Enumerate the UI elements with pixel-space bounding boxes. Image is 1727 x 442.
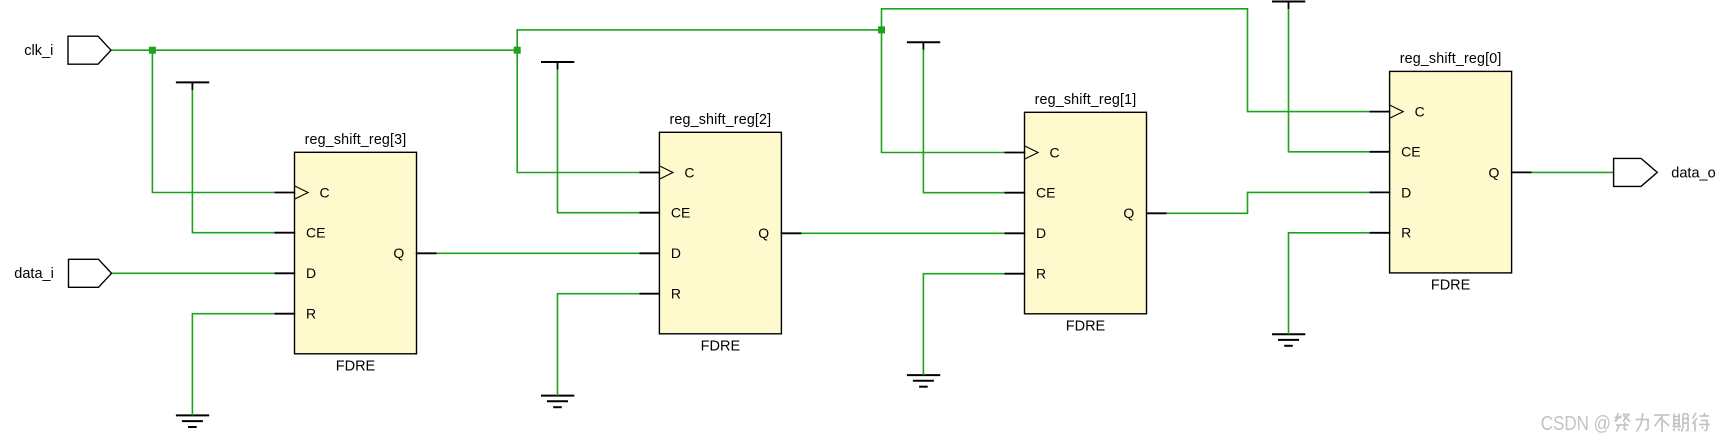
svg-text:reg_shift_reg[0]: reg_shift_reg[0] — [1400, 51, 1502, 67]
svg-text:clk_i: clk_i — [24, 43, 53, 59]
svg-text:C: C — [320, 184, 330, 200]
svg-text:D: D — [671, 245, 681, 261]
svg-text:data_i: data_i — [14, 266, 54, 282]
flip-flop reg_shift_reg[2] (FDRE cell U2) — [639, 132, 801, 333]
wire GND to R of reg_shift_reg[2] — [558, 294, 640, 396]
svg-text:D: D — [1401, 184, 1411, 200]
wire VCC to CE of reg_shift_reg[0] — [1289, 9, 1370, 152]
svg-text:FDRE: FDRE — [1066, 319, 1106, 335]
svg-text:data_o: data_o — [1671, 165, 1715, 181]
svg-text:Q: Q — [758, 225, 769, 241]
wire clk junction1 to junction2 — [152, 49, 517, 51]
svg-text:D: D — [1036, 225, 1046, 241]
wire VCC to CE of reg_shift_reg[1] — [923, 50, 1004, 193]
flip-flop reg_shift_reg[0] (FDRE cell U4) — [1370, 71, 1532, 273]
svg-text:reg_shift_reg[2]: reg_shift_reg[2] — [670, 112, 772, 128]
svg-text:Q: Q — [393, 245, 404, 261]
svg-text:CE: CE — [306, 225, 325, 241]
wire clk to C of reg_shift_reg[1] — [882, 30, 1005, 153]
wire clk to C of reg_shift_reg[3] — [152, 50, 274, 192]
power VCC (const1) for CE of reg_shift_reg[3] — [176, 81, 209, 83]
svg-text:R: R — [1401, 225, 1411, 241]
wire GND to R of reg_shift_reg[1] — [923, 274, 1004, 375]
svg-text:R: R — [671, 286, 681, 302]
svg-text:FDRE: FDRE — [336, 359, 376, 375]
svg-text:CSDN @: CSDN @ — [1541, 412, 1611, 435]
wire net Q[2] from Q of reg_shift_reg[2] to D of reg_shift_reg[1] — [801, 232, 1004, 234]
svg-text:D: D — [306, 265, 316, 281]
wire net Q[0] from Q of reg_shift_reg[0] to data_o port — [1532, 171, 1614, 173]
input port clk_i — [68, 36, 111, 64]
ground GND (const0) for R of reg_shift_reg[2] — [541, 395, 574, 397]
ground GND (const0) for R of reg_shift_reg[3] — [176, 414, 209, 416]
wire VCC to CE of reg_shift_reg[2] — [558, 70, 640, 213]
svg-text:C: C — [1050, 144, 1060, 160]
svg-text:CE: CE — [1401, 144, 1420, 160]
svg-text:R: R — [1036, 266, 1046, 282]
svg-text:FDRE: FDRE — [701, 339, 741, 355]
output port data_o — [1614, 158, 1658, 186]
svg-text:CE: CE — [1036, 185, 1055, 201]
svg-text:reg_shift_reg[3]: reg_shift_reg[3] — [305, 132, 407, 148]
wire clk junction3 to C of reg_shift_reg[0] — [882, 9, 1370, 112]
flip-flop reg_shift_reg[1] (FDRE cell U3) — [1005, 112, 1167, 313]
flip-flop reg_shift_reg[3] (FDRE cell U1) — [275, 152, 437, 353]
ground GND (const0) for R of reg_shift_reg[0] — [1272, 333, 1305, 335]
watermark CSDN @nulibuqidai — [1541, 412, 1710, 435]
svg-text:reg_shift_reg[1]: reg_shift_reg[1] — [1035, 92, 1137, 108]
svg-text:C: C — [1415, 104, 1425, 120]
wire GND to R of reg_shift_reg[0] — [1289, 233, 1370, 334]
svg-text:C: C — [684, 164, 694, 180]
junction on clk net at clk_i — [149, 47, 156, 54]
power VCC (const1) for CE of reg_shift_reg[0] — [1272, 1, 1305, 3]
wire clk_i port to junction — [111, 49, 152, 51]
wire data_i to D of reg_shift_reg[3] — [112, 272, 275, 274]
wire net Q[3] from Q of reg_shift_reg[3] to D of reg_shift_reg[2] — [437, 252, 640, 254]
wire clk to C of reg_shift_reg[2] — [517, 50, 639, 172]
wire GND to R of reg_shift_reg[3] — [192, 314, 274, 416]
ground GND (const0) for R of reg_shift_reg[1] — [907, 374, 940, 376]
junction on clk net above reg_shift_reg[1] — [878, 26, 885, 33]
power VCC (const1) for CE of reg_shift_reg[2] — [541, 61, 574, 63]
wire net Q[1] from Q of reg_shift_reg[1] to D of reg_shift_reg[0] — [1167, 192, 1370, 213]
input port data_i — [69, 259, 112, 287]
svg-text:Q: Q — [1489, 164, 1500, 180]
junction on clk net above reg_shift_reg[2] — [514, 47, 521, 54]
wire VCC to CE of reg_shift_reg[3] — [192, 90, 274, 233]
svg-text:R: R — [306, 306, 316, 322]
svg-text:Q: Q — [1123, 205, 1134, 221]
wire clk junction2 up to junction3 — [517, 30, 881, 50]
svg-text:CE: CE — [671, 205, 690, 221]
power VCC (const1) for CE of reg_shift_reg[1] — [907, 41, 940, 43]
svg-text:FDRE: FDRE — [1431, 278, 1471, 294]
